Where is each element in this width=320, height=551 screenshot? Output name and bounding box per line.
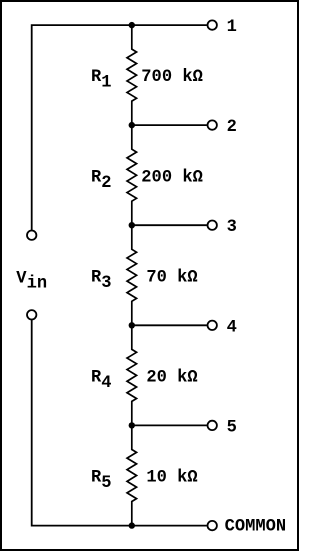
svg-text:4: 4 (227, 318, 237, 337)
resistor R5 value label 10 kOhm (146, 469, 197, 488)
node 2 junction dot (129, 122, 135, 128)
node 3 junction dot (129, 222, 135, 228)
resistor R4 value label 20 kOhm (146, 369, 197, 388)
svg-text:10 kΩ: 10 kΩ (146, 469, 197, 488)
wire: Vin - lead down left side and bottom rail to COMMON terminal (32, 320, 207, 526)
terminal 2 label (227, 118, 237, 137)
svg-text:2: 2 (227, 118, 237, 137)
terminal 4 label (227, 318, 237, 337)
svg-text:200 kΩ: 200 kΩ (141, 168, 203, 187)
wire: node 2 to terminal 2 (132, 124, 207, 126)
terminal COMMON label (225, 517, 287, 536)
terminal 5 label (227, 418, 237, 437)
resistor R1 (zigzag with leads, node1 to node2) (127, 25, 137, 125)
svg-text:3: 3 (227, 218, 237, 237)
svg-text:5: 5 (227, 418, 237, 437)
wire: node 4 to terminal 4 (132, 324, 207, 326)
resistor R3 reference label (91, 268, 112, 293)
resistor R2 reference label (91, 168, 112, 193)
resistor R2 value label 200 kOhm (141, 168, 203, 187)
resistor R4 reference label (91, 369, 112, 394)
terminal Vin - (open circle) (27, 310, 36, 319)
resistor R1 value label 700 kOhm (141, 68, 203, 87)
label Vin (16, 270, 47, 294)
svg-text:1: 1 (227, 18, 237, 37)
svg-text:20 kΩ: 20 kΩ (146, 369, 197, 388)
resistor R3 (zigzag with leads, node3 to node4) (127, 225, 137, 325)
terminal 1 label (227, 18, 237, 37)
resistor R2 (zigzag with leads, node2 to node3) (127, 125, 137, 225)
terminal 3 label (227, 218, 237, 237)
terminal 4 (open circle) (208, 321, 217, 330)
node 1 junction dot (129, 22, 135, 28)
wire: node 5 to terminal 5 (132, 424, 207, 426)
svg-text:70 kΩ: 70 kΩ (146, 268, 197, 287)
svg-text:COMMON: COMMON (225, 517, 287, 536)
node 4 junction dot (129, 322, 135, 328)
wire: top rail from terminal 1 through node 1 to left corner, down to Vin + terminal (32, 25, 207, 230)
svg-text:700 kΩ: 700 kΩ (141, 68, 203, 87)
terminal 3 (open circle) (208, 221, 217, 230)
resistor R1 reference label (91, 68, 112, 93)
resistor R3 value label 70 kOhm (146, 268, 197, 287)
terminal 5 (open circle) (208, 421, 217, 430)
wire: node 3 to terminal 3 (132, 224, 207, 226)
resistor R5 (zigzag with leads, node5 to COMMON node) (127, 425, 137, 525)
node COMMON junction dot (129, 522, 135, 528)
node 5 junction dot (129, 422, 135, 428)
terminal 1 (open circle) (208, 20, 217, 29)
terminal 2 (open circle) (208, 120, 217, 129)
terminal COMMON (open circle) (208, 521, 217, 530)
resistor R5 reference label (91, 469, 112, 494)
terminal Vin + (open circle) (27, 231, 36, 240)
resistor R4 (zigzag with leads, node4 to node5) (127, 325, 137, 425)
